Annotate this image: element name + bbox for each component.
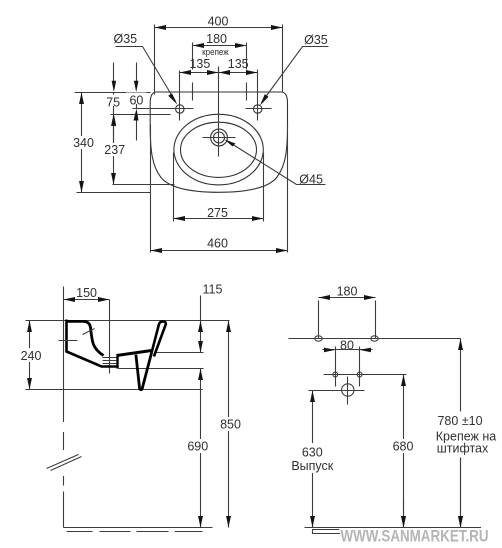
svg-text:135: 135 [228,57,249,71]
svg-text:Ø35: Ø35 [114,32,138,46]
svg-text:Выпуск: Выпуск [291,459,333,473]
svg-text:180: 180 [337,284,358,298]
svg-text:690: 690 [187,440,208,454]
svg-text:180: 180 [206,32,227,46]
svg-text:Ø45: Ø45 [299,172,323,186]
svg-text:460: 460 [207,236,228,250]
svg-text:штифтах: штифтах [437,441,489,455]
svg-text:WWW.SANMARKET.RU: WWW.SANMARKET.RU [341,526,489,545]
svg-text:275: 275 [207,206,228,220]
svg-text:340: 340 [73,136,94,150]
svg-text:780 ±10: 780 ±10 [437,414,482,428]
svg-text:75: 75 [106,96,120,110]
svg-text:135: 135 [189,57,210,71]
svg-text:крепеж: крепеж [202,47,229,57]
svg-text:60: 60 [129,94,143,108]
svg-text:80: 80 [340,338,354,352]
svg-text:Ø35: Ø35 [304,33,328,47]
svg-text:240: 240 [21,349,42,363]
svg-text:115: 115 [203,283,223,297]
svg-text:680: 680 [393,439,414,453]
svg-text:630: 630 [302,445,323,459]
svg-text:150: 150 [76,286,97,300]
svg-text:400: 400 [208,14,229,28]
svg-text:850: 850 [220,418,241,432]
svg-text:237: 237 [104,143,125,157]
